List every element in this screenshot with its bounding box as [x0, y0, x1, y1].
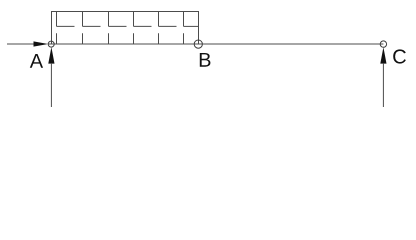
label C — [393, 49, 406, 63]
wire: beam A-B-C — [48, 43, 383, 45]
reaction arrow at A (upward) — [48, 47, 54, 64]
distributed load box: right edge — [198, 12, 200, 45]
load hatch: mid bed-joint line segments — [57, 25, 199, 27]
node B circle — [194, 40, 202, 48]
label A — [30, 54, 43, 68]
reaction arrow at C (upward) — [380, 47, 386, 63]
load hatch: top row joints — [57, 12, 184, 27]
node C circle — [380, 41, 386, 47]
label B — [200, 53, 211, 67]
node A circle — [48, 41, 54, 47]
wire: reaction stem below C — [382, 63, 384, 107]
wire: reaction stem below A — [50, 63, 52, 107]
arrowhead: horizontal force at A — [34, 41, 49, 46]
distributed load box: left edge — [51, 12, 53, 45]
load hatch: bottom row joints — [57, 33, 184, 44]
wire: applied horizontal load line into A — [7, 43, 35, 45]
distributed load box: top edge — [51, 11, 199, 13]
